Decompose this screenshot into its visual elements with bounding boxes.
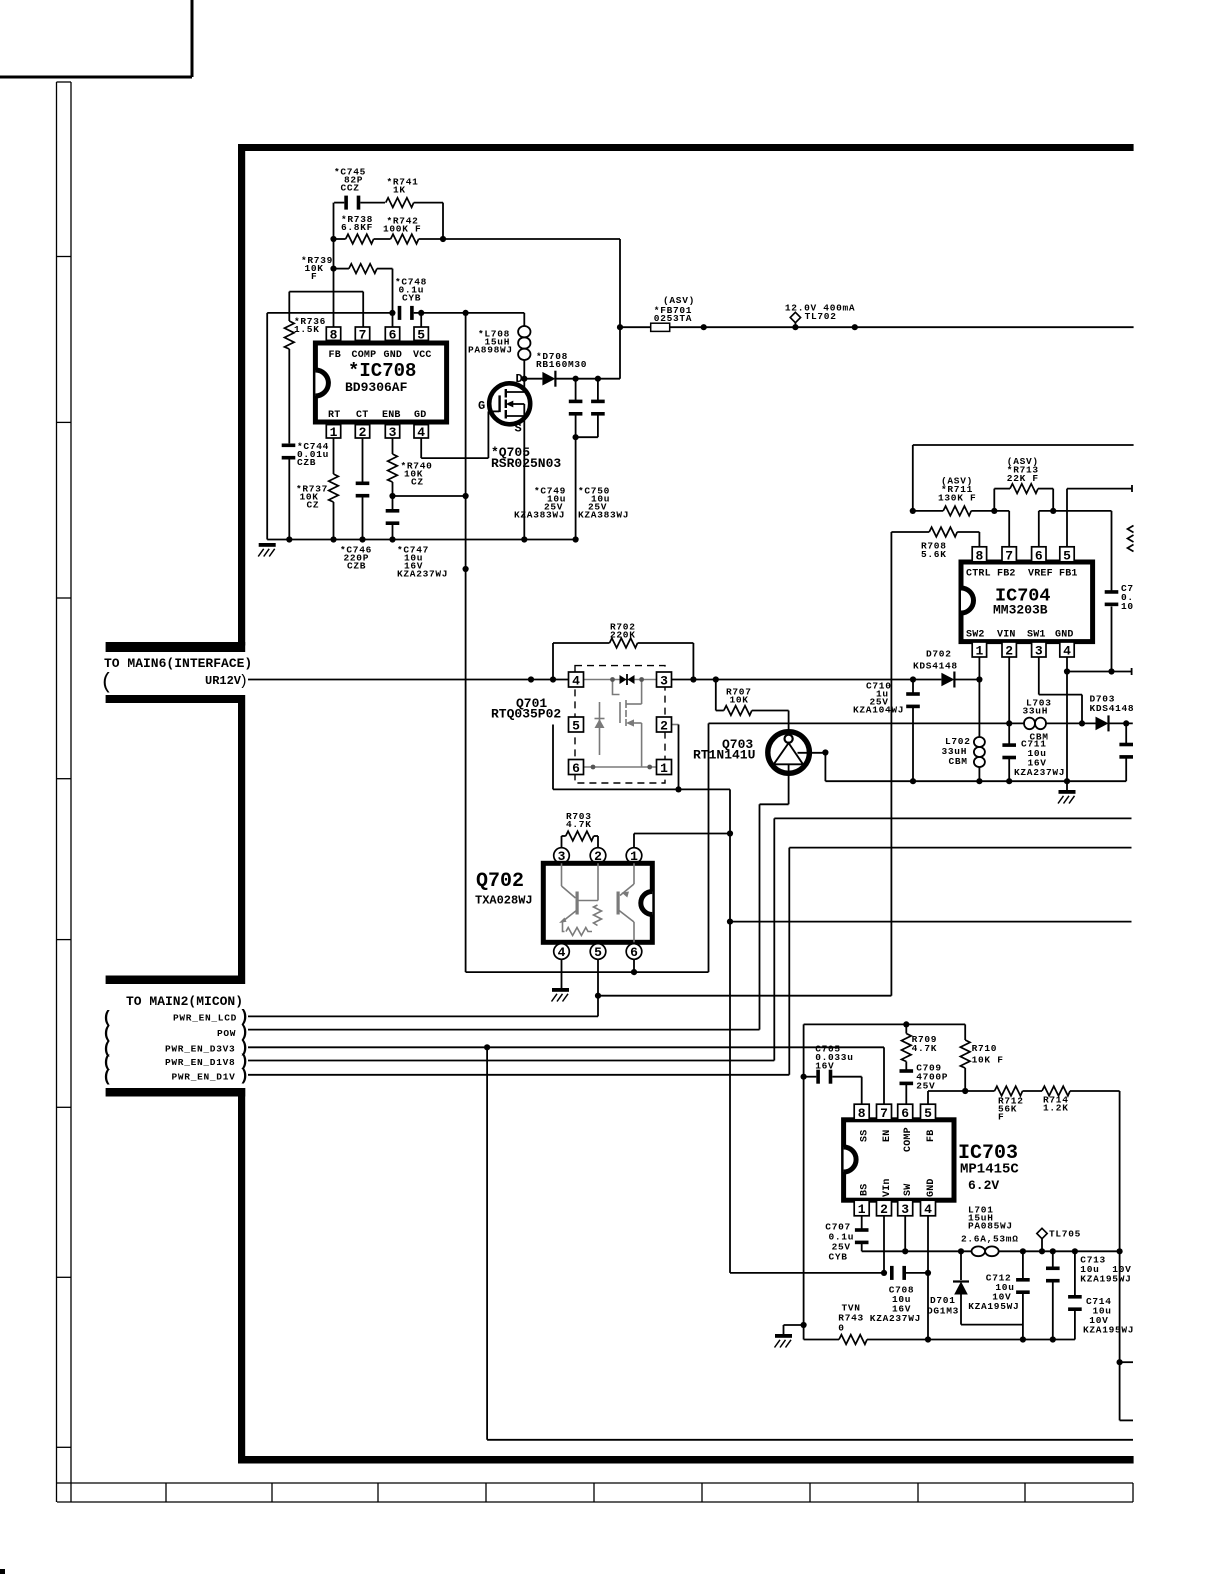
svg-text:22K F: 22K F — [1007, 473, 1039, 484]
top-left title rectangle — [0, 0, 192, 77]
svg-text:KDS4148: KDS4148 — [1090, 703, 1135, 714]
svg-text:TL705: TL705 — [1049, 1229, 1081, 1240]
wire pin5 node — [597, 959, 599, 1016]
svg-text:PWR_EN_D1V8: PWR_EN_D1V8 — [165, 1057, 235, 1068]
svg-text:VIN: VIN — [997, 630, 1016, 641]
pin 5 — [921, 1104, 936, 1120]
svg-text:CZB: CZB — [297, 457, 316, 468]
svg-text:2: 2 — [880, 1202, 888, 1217]
svg-text:Q702: Q702 — [476, 870, 524, 893]
svg-text:BD9306AF: BD9306AF — [345, 380, 408, 395]
svg-text:FB: FB — [926, 1130, 937, 1142]
svg-text:*IC708: *IC708 — [348, 360, 416, 382]
svg-text:DG1M3: DG1M3 — [927, 1306, 959, 1317]
svg-text:KZA237WJ: KZA237WJ — [397, 569, 448, 580]
svg-text:POW: POW — [217, 1028, 236, 1039]
svg-text:D701: D701 — [930, 1295, 956, 1306]
svg-text:KZA383WJ: KZA383WJ — [514, 510, 565, 521]
wire EN riser — [883, 1047, 885, 1104]
IC704 body — [961, 562, 1093, 642]
pin 6 — [569, 760, 584, 775]
wire — [442, 203, 444, 239]
svg-text:130K F: 130K F — [938, 493, 976, 504]
wire long bus to IC703 VIn — [729, 789, 731, 1273]
pin 2 — [877, 1200, 892, 1216]
capacitor CT pin2 — [362, 438, 364, 483]
pin 3 — [385, 425, 399, 438]
pin 8 — [972, 547, 986, 562]
wire bus2 — [789, 847, 1131, 849]
pin 1 — [854, 1200, 869, 1216]
svg-text:SW1: SW1 — [1027, 630, 1046, 641]
wire GND pin4 — [1066, 657, 1068, 790]
svg-text:4: 4 — [572, 673, 580, 688]
pin 4 — [414, 425, 428, 438]
svg-text:4.7K: 4.7K — [566, 819, 592, 830]
wire UR12V rail — [248, 679, 569, 681]
svg-text:5: 5 — [1063, 548, 1071, 563]
svg-text:F: F — [998, 1112, 1004, 1123]
svg-text:1.2K: 1.2K — [1043, 1103, 1069, 1114]
capacitor C715 (unlabeled) — [1125, 723, 1127, 744]
svg-text:RSR025N03: RSR025N03 — [491, 456, 561, 471]
bottom title block — [57, 1483, 1133, 1502]
svg-text:PWR_EN_LCD: PWR_EN_LCD — [173, 1013, 237, 1024]
wire right stubs — [1117, 1359, 1123, 1365]
svg-text:5: 5 — [594, 945, 602, 960]
svg-text:6: 6 — [572, 761, 580, 776]
svg-text:(: ( — [102, 1068, 112, 1087]
svg-text:0: 0 — [838, 1323, 844, 1334]
wire CTRL long vertical — [890, 532, 892, 996]
pin 3 — [1032, 642, 1046, 657]
svg-text:CZB: CZB — [347, 561, 366, 572]
svg-text:2: 2 — [660, 718, 668, 733]
wire pin6 to VCC bus — [633, 959, 635, 972]
svg-text:SW2: SW2 — [966, 630, 985, 641]
svg-text:6: 6 — [630, 945, 638, 960]
svg-text:7: 7 — [359, 328, 367, 343]
wire SW node — [904, 1216, 906, 1252]
svg-text:6: 6 — [389, 328, 397, 343]
wire SW1 jog — [1038, 657, 1040, 695]
pin 7 — [355, 327, 369, 340]
svg-text:RT1N141U: RT1N141U — [693, 748, 755, 763]
svg-text:5.6K: 5.6K — [921, 549, 947, 560]
wire Q702 pin1 riser — [633, 834, 635, 848]
svg-text:1: 1 — [330, 425, 338, 440]
pin 1 — [657, 760, 672, 775]
svg-text:3: 3 — [901, 1202, 909, 1217]
wire VIn line — [730, 1272, 884, 1274]
Q701 internals — [569, 680, 679, 768]
wire GND pin4 down — [927, 1216, 929, 1340]
svg-text:8: 8 — [976, 548, 984, 563]
svg-text:3: 3 — [660, 673, 668, 688]
Q702 internals — [562, 863, 635, 942]
svg-text:1K: 1K — [393, 185, 406, 196]
wire SW2 to L702 — [978, 657, 980, 737]
svg-text:1: 1 — [660, 761, 668, 776]
svg-text:F: F — [311, 271, 317, 282]
svg-text:KZA383WJ: KZA383WJ — [578, 510, 629, 521]
svg-text:RB160M30: RB160M30 — [536, 359, 587, 370]
ground — [1058, 790, 1076, 804]
svg-text:6.8KF: 6.8KF — [341, 222, 373, 233]
svg-text:KDS4148: KDS4148 — [913, 661, 958, 672]
pin 2 — [355, 425, 369, 438]
wire 12V rail — [620, 326, 1134, 328]
wire pin4 to ground — [561, 959, 563, 988]
svg-text:): ) — [239, 673, 248, 690]
svg-text:7: 7 — [1005, 548, 1013, 563]
svg-text:4: 4 — [417, 425, 425, 440]
svg-text:(: ( — [100, 670, 113, 695]
chevrons cut component at page edge — [1128, 526, 1134, 552]
wire FB1 — [1066, 489, 1068, 547]
svg-text:10K F: 10K F — [972, 1055, 1004, 1066]
wire FB node vertical — [333, 203, 335, 327]
pin 7 — [1002, 547, 1016, 562]
dual diode in Q701 — [620, 675, 627, 684]
wire VIN rail — [709, 722, 1025, 724]
IC703 body — [844, 1120, 954, 1200]
svg-text:10: 10 — [1121, 601, 1134, 612]
svg-text:RT: RT — [328, 410, 340, 421]
svg-text:TO MAIN6(INTERFACE): TO MAIN6(INTERFACE) — [104, 656, 252, 671]
svg-text:CZ: CZ — [411, 477, 424, 488]
svg-text:PA085WJ: PA085WJ — [968, 1221, 1013, 1232]
svg-text:CZ: CZ — [307, 500, 320, 511]
wire bus1 — [774, 817, 1131, 819]
svg-text:KZA237WJ: KZA237WJ — [1014, 767, 1065, 778]
svg-text:KZA237WJ: KZA237WJ — [870, 1313, 921, 1324]
thick schematic border — [106, 144, 1134, 1464]
svg-text:PWR_EN_D3V3: PWR_EN_D3V3 — [165, 1043, 235, 1054]
MAIN2 connector stubs — [106, 976, 246, 985]
svg-text:VIn: VIn — [882, 1178, 893, 1197]
ground bus — [267, 539, 575, 541]
svg-text:3: 3 — [389, 425, 397, 440]
svg-text:25V: 25V — [916, 1081, 935, 1092]
left margin column — [57, 82, 72, 1502]
svg-text:5: 5 — [417, 328, 425, 343]
svg-text:PWR_EN_D1V: PWR_EN_D1V — [172, 1071, 236, 1082]
svg-text:6: 6 — [901, 1106, 909, 1121]
svg-text:EN: EN — [882, 1130, 893, 1142]
svg-text:10K: 10K — [730, 695, 749, 706]
svg-text:ENB: ENB — [382, 410, 401, 421]
svg-text:6.2V: 6.2V — [968, 1178, 999, 1193]
svg-text:GND: GND — [1055, 630, 1074, 641]
wire VREF line — [1039, 510, 1112, 512]
svg-text:KZA195WJ: KZA195WJ — [968, 1301, 1019, 1312]
svg-text:TO MAIN2(MICON): TO MAIN2(MICON) — [126, 994, 243, 1009]
svg-text:MM3203B: MM3203B — [993, 603, 1048, 618]
svg-text:5: 5 — [924, 1106, 932, 1121]
wire ground bus — [825, 780, 1126, 782]
svg-text:SS: SS — [860, 1130, 871, 1142]
svg-text:6: 6 — [1035, 548, 1043, 563]
svg-text:3: 3 — [1035, 644, 1043, 659]
pin 4 — [569, 672, 584, 687]
wire VREF-gnd line — [1067, 671, 1132, 673]
pin 8 — [854, 1104, 869, 1120]
svg-text:TL702: TL702 — [805, 311, 837, 322]
pin 8 — [326, 327, 340, 340]
svg-text:8: 8 — [858, 1106, 866, 1121]
pin 4 — [921, 1200, 936, 1216]
svg-text:VREF FB1: VREF FB1 — [1028, 569, 1078, 580]
svg-text:G: G — [478, 399, 485, 413]
svg-text:1.5K: 1.5K — [294, 324, 320, 335]
svg-text:): ) — [239, 1067, 249, 1086]
pin 6 — [898, 1104, 913, 1120]
svg-text:FB: FB — [329, 350, 341, 361]
svg-text:GND: GND — [926, 1178, 937, 1197]
svg-text:8: 8 — [330, 328, 338, 343]
pin 2 — [657, 717, 672, 732]
pin 4 — [1060, 642, 1074, 657]
svg-text:KZA104WJ: KZA104WJ — [853, 705, 904, 716]
svg-text:R710: R710 — [972, 1043, 998, 1054]
svg-text:7: 7 — [880, 1106, 888, 1121]
op-amp/regulator IC708 body — [315, 343, 446, 422]
svg-text:2.6A,53mΩ: 2.6A,53mΩ — [961, 1234, 1019, 1245]
pin 1 — [972, 642, 986, 657]
pin 2 — [1002, 642, 1016, 657]
wire D3V3 bottom branch — [486, 1047, 488, 1440]
svg-text:CYB: CYB — [829, 1252, 848, 1263]
svg-text:TXA028WJ: TXA028WJ — [475, 894, 533, 908]
svg-text:SW: SW — [903, 1184, 914, 1196]
pin 3 — [898, 1200, 913, 1216]
pin 5 — [1060, 547, 1074, 562]
ground — [258, 543, 276, 557]
svg-text:CCZ: CCZ — [341, 183, 360, 194]
wire GND/C748 line — [267, 312, 392, 314]
pin 5 — [569, 717, 584, 732]
pin 1 — [326, 425, 340, 438]
svg-text:KZA195WJ: KZA195WJ — [1080, 1274, 1131, 1285]
svg-text:D702: D702 — [926, 649, 952, 660]
wire GD to gate — [420, 438, 422, 458]
pin 3 — [657, 672, 672, 687]
svg-text:CBM: CBM — [1030, 732, 1049, 743]
svg-text:KZA195WJ: KZA195WJ — [1083, 1325, 1134, 1336]
svg-text:CBM: CBM — [949, 756, 968, 767]
wire COMP — [289, 291, 363, 293]
wire FB line — [927, 1091, 929, 1104]
svg-text:1: 1 — [858, 1202, 866, 1217]
svg-text:33uH: 33uH — [1023, 706, 1049, 717]
pin 5 — [414, 327, 428, 340]
svg-text:CYB: CYB — [402, 293, 421, 304]
svg-text:CTRL FB2: CTRL FB2 — [966, 569, 1016, 580]
svg-text:4.7K: 4.7K — [912, 1043, 938, 1054]
svg-text:4: 4 — [558, 945, 566, 960]
svg-text:PA898WJ: PA898WJ — [468, 345, 513, 356]
svg-text:4: 4 — [1063, 644, 1071, 659]
svg-text:CT: CT — [356, 410, 368, 421]
svg-text:5: 5 — [572, 718, 580, 733]
svg-text:RTQ035P02: RTQ035P02 — [491, 707, 561, 722]
svg-text:GD: GD — [414, 410, 426, 421]
svg-text:UR12V: UR12V — [205, 674, 242, 688]
MAIN6 connector stubs — [106, 642, 246, 652]
svg-text:COMP: COMP — [903, 1127, 914, 1152]
long VCC bus vertical — [465, 313, 467, 972]
svg-text:2: 2 — [359, 425, 367, 440]
pin 6 — [385, 327, 399, 340]
pin 6 — [1032, 547, 1046, 562]
svg-text:1: 1 — [976, 644, 984, 659]
pin 7 — [877, 1104, 892, 1120]
svg-text:2: 2 — [1005, 644, 1013, 659]
svg-text:MP1415C: MP1415C — [960, 1162, 1019, 1178]
svg-text:4: 4 — [924, 1202, 932, 1217]
svg-text:BS: BS — [860, 1184, 871, 1196]
wire Q701 bottom — [552, 725, 554, 790]
wire bus3 — [730, 921, 1132, 923]
wire node-A vertical — [803, 1024, 805, 1339]
